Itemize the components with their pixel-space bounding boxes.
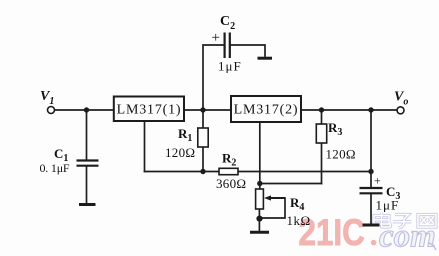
子 (395, 215, 409, 220)
wire R3 top (321, 110, 323, 124)
node output / C3 junction (368, 107, 373, 112)
capacitor C1 (77, 161, 99, 166)
svg-text:LM317(1): LM317(1) (117, 103, 182, 118)
wire C3 branch vertical (370, 110, 372, 188)
potentiometer R4 (256, 189, 285, 209)
node R4 bottom / wiper junction (256, 216, 262, 222)
resistor R2 (219, 168, 238, 174)
op-amp U1 LM317(1) (114, 97, 184, 122)
svg-text:1μF: 1μF (376, 198, 400, 213)
wire U1 ADJ down (144, 121, 146, 172)
电 (380, 213, 383, 225)
wire R1 top (202, 110, 204, 128)
wire C1 to ground (86, 167, 88, 204)
wire U1 output to U2 input (184, 109, 231, 111)
wire R2 to C3 node (238, 171, 371, 173)
wire C3 to ground (370, 194, 372, 225)
wire ADJ rail to R2 (145, 171, 220, 173)
node R2 rail / C3 vertical junction (368, 169, 373, 174)
svg-text:360Ω: 360Ω (216, 176, 246, 191)
watermark 电子网 (374, 213, 436, 229)
node ADJ2 / R4 junction (257, 181, 262, 186)
node R1 / ADJ rail junction (200, 169, 205, 174)
ground (C3) (363, 224, 380, 227)
svg-text:120Ω: 120Ω (165, 145, 195, 160)
node input/C1 junction (84, 107, 89, 112)
wire C2 left branch (203, 45, 224, 110)
wire R4 wiper loop (259, 198, 285, 218)
wire R4 bottom to ground (258, 209, 260, 232)
svg-text:+: + (374, 174, 381, 188)
watermark 21IC (299, 212, 365, 253)
ground (C1) (79, 203, 96, 206)
wire Vi to U1 input (55, 109, 114, 111)
wire U2 ADJ down (259, 122, 261, 189)
wire R3 bottom (321, 143, 323, 184)
svg-text:120Ω: 120Ω (326, 147, 356, 162)
node U2 out / R3 junction (319, 107, 324, 112)
svg-text:+: + (212, 30, 220, 46)
ground (C2 stub) (258, 57, 273, 60)
wire U2 output to Vo (301, 109, 397, 111)
svg-text:1kΩ: 1kΩ (287, 213, 311, 228)
wire C1 branch vertical (86, 110, 88, 160)
watermark com swash (429, 243, 436, 250)
ground (R4) (250, 231, 269, 234)
wire R1 bottom (202, 147, 204, 172)
terminal Vo (397, 107, 404, 114)
op-amp U2 LM317(2) (231, 96, 301, 122)
svg-text:LM317(2): LM317(2) (234, 103, 299, 118)
svg-text:0. 1μF: 0. 1μF (40, 161, 70, 175)
resistor R1 (198, 128, 208, 147)
terminal Vi (48, 107, 55, 114)
网 (418, 215, 436, 228)
watermark dot (371, 240, 377, 246)
wire C2 right to stub (231, 45, 266, 56)
capacitor C3 (360, 188, 383, 193)
node U1 out / C2 / R1 junction (200, 107, 205, 112)
resistor R3 (316, 124, 326, 143)
capacitor C2 (225, 33, 230, 59)
svg-text:1μF: 1μF (218, 59, 242, 74)
wire ADJ2 node to R3 bottom (260, 183, 322, 185)
